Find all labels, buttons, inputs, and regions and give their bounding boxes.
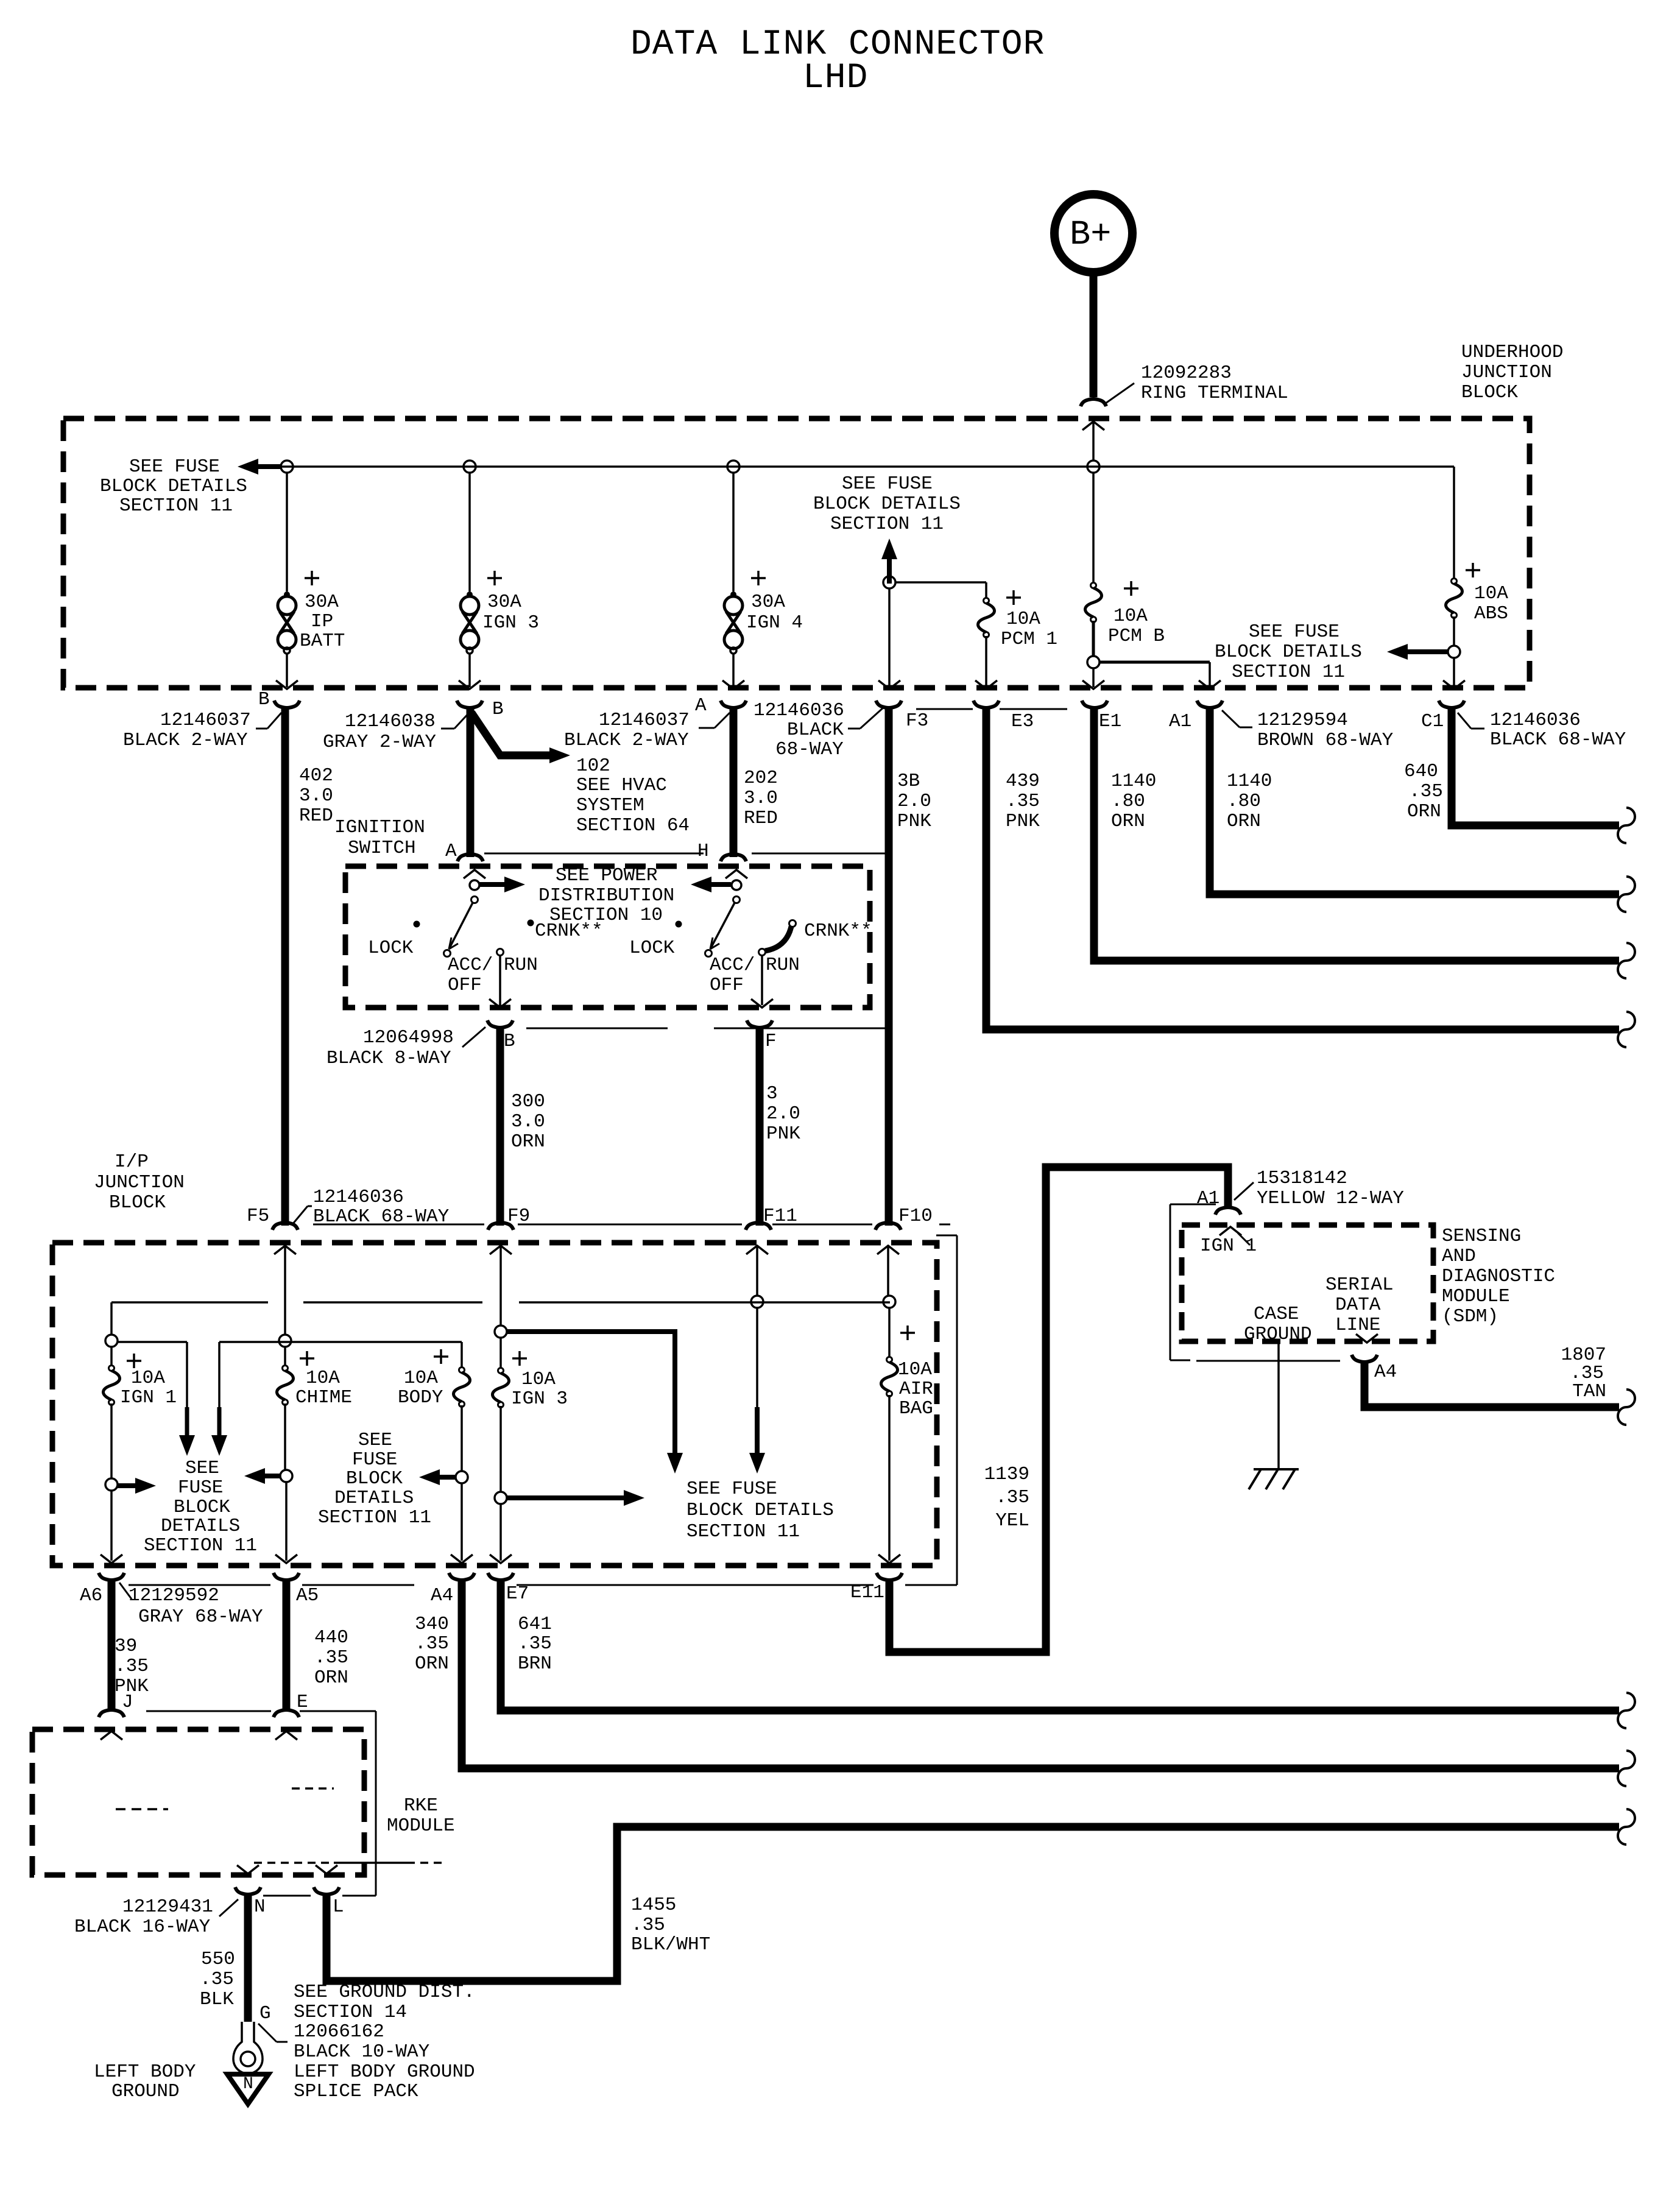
label + for fuse at x=471 <box>305 571 319 585</box>
svg-text:30A: 30A <box>305 591 339 613</box>
squiggle 439 <box>1618 1012 1635 1047</box>
wire PCMB junction down <box>1092 668 1095 687</box>
svg-text:PNK: PNK <box>1006 811 1040 832</box>
label CRNK** switch1 <box>535 920 603 942</box>
arrow chevron ign out B <box>489 999 511 1008</box>
ground triangle N <box>227 2074 269 2104</box>
label pin N RKE <box>254 1896 266 1918</box>
svg-text:BLOCK DETAILS: BLOCK DETAILS <box>686 1500 834 1521</box>
wire IP bus2203 b <box>219 1341 462 1343</box>
wire F10 down <box>887 1247 889 1296</box>
svg-text:SENSING: SENSING <box>1442 1226 1521 1247</box>
node junction IGN1 bottom <box>105 1478 118 1491</box>
svg-text:.35: .35 <box>518 1633 552 1654</box>
svg-text:TAN: TAN <box>1572 1381 1606 1402</box>
arrow fuse details left 2 <box>419 1469 456 1485</box>
svg-text:(SDM): (SDM) <box>1442 1306 1498 1327</box>
svg-text:DISTRIBUTION: DISTRIBUTION <box>538 885 674 906</box>
node junction IGN3 top <box>495 1326 507 1338</box>
label SEE POWER DISTRIBUTION SECTION 10 <box>538 865 674 926</box>
arrow branch 102 to HVAC <box>471 713 570 763</box>
label 300 3.0 ORN <box>511 1091 545 1153</box>
label pin A1 <box>1169 711 1191 732</box>
arrow chevron out E3col <box>878 680 900 689</box>
svg-text:402: 402 <box>299 765 333 786</box>
label UNDERHOOD JUNCTION BLOCK <box>1461 342 1563 403</box>
label 12146036 BLACK 68-WAY stacked <box>754 700 884 760</box>
line RKE bottom connector <box>263 1895 356 1897</box>
label pin E RKE <box>297 1692 308 1713</box>
svg-text:10A: 10A <box>521 1369 556 1390</box>
arrow chevron out at x=771 <box>459 680 481 689</box>
connector shell at x=1986 under UJB <box>1197 701 1223 708</box>
label pin H ign <box>697 841 709 862</box>
arrow chevron in F5 <box>274 1246 296 1254</box>
svg-text:.35: .35 <box>314 1647 348 1668</box>
svg-text:IGN 1: IGN 1 <box>1200 1235 1257 1257</box>
svg-text:DETAILS: DETAILS <box>161 1516 240 1537</box>
svg-text:BLACK 8-WAY: BLACK 8-WAY <box>326 1048 451 1069</box>
svg-text:DATA: DATA <box>1335 1294 1381 1316</box>
svg-text:.35: .35 <box>631 1915 665 1936</box>
connector shell H ign <box>721 854 746 861</box>
svg-text:SEE HVAC: SEE HVAC <box>576 775 667 796</box>
line IP top connector a <box>313 1224 484 1226</box>
wire IGN1 feed corner <box>110 1302 113 1335</box>
switch2 ACC/OFF contact <box>705 950 712 957</box>
title text DATA LINK CONNECTOR <box>630 25 1045 65</box>
switch1 LOCK contact <box>414 921 420 928</box>
svg-text:BLOCK: BLOCK <box>1461 382 1518 403</box>
arrow chevron in F10 <box>877 1246 899 1254</box>
label leader G <box>258 2024 288 2042</box>
svg-text:F: F <box>765 1031 777 1052</box>
switch1 CRNK contact <box>528 920 534 927</box>
line IP bottom connector a <box>129 1584 270 1586</box>
svg-text:SECTION 11: SECTION 11 <box>318 1507 431 1528</box>
connector shell at x=1619 under UJB <box>973 701 999 708</box>
wire 439 PNK <box>986 707 1619 1029</box>
label pin F10 <box>898 1206 933 1227</box>
svg-text:ORN: ORN <box>511 1131 545 1153</box>
svg-text:RUN: RUN <box>766 955 800 976</box>
label + AIRBAG <box>900 1326 915 1340</box>
svg-text:.35: .35 <box>1006 791 1040 812</box>
label 202 3.0 RED <box>744 768 778 829</box>
label RKE MODULE <box>387 1795 455 1837</box>
label 15318142 YELLOW 12-WAY <box>1234 1168 1404 1209</box>
svg-text:1140: 1140 <box>1111 771 1156 792</box>
svg-text:N: N <box>254 1896 266 1918</box>
svg-text:FUSE: FUSE <box>178 1477 223 1499</box>
svg-text:10A: 10A <box>404 1368 438 1389</box>
svg-text:I/P: I/P <box>115 1151 149 1173</box>
svg-text:10A: 10A <box>306 1368 340 1389</box>
svg-text:CRNK**: CRNK** <box>804 920 872 942</box>
svg-text:JUNCTION: JUNCTION <box>94 1172 185 1193</box>
wire 102 RED <box>467 707 475 857</box>
RKE internal dashes c <box>254 1862 446 1864</box>
connector shell IP bottom x=470 <box>274 1573 299 1580</box>
svg-text:C1: C1 <box>1421 711 1444 732</box>
wire IP bus2137 a <box>111 1301 268 1304</box>
node junction CHIME top <box>279 1335 291 1347</box>
connector shell at x=2383 under UJB <box>1439 701 1464 708</box>
label 1139 .35 YEL <box>984 1464 1029 1531</box>
label 1807 .35 TAN <box>1561 1344 1606 1402</box>
switch1 ACC/OFF contact <box>444 950 451 957</box>
svg-text:H: H <box>697 841 709 862</box>
arrow chevron out A4 <box>451 1555 473 1563</box>
wire F5 junction to fuse <box>284 1347 286 1366</box>
svg-text:BAG: BAG <box>899 1398 933 1419</box>
arrow fuse details right 2 <box>507 1490 644 1506</box>
label pin L RKE <box>333 1896 344 1918</box>
svg-text:439: 439 <box>1006 771 1040 792</box>
switch2 RUN contact <box>759 949 766 956</box>
wire IGN1 junction down <box>110 1491 113 1561</box>
svg-text:LHD: LHD <box>803 58 868 98</box>
arrow chevron in A1 SDM <box>1219 1227 1250 1245</box>
RKE internal dashes b <box>292 1787 334 1790</box>
node junction PCM1 <box>883 576 895 588</box>
label 3B 2.0 PNK <box>897 771 931 832</box>
connector shell B ign <box>487 1020 513 1028</box>
wire bus corner to ABS fuse <box>1453 467 1455 579</box>
label SENSING AND DIAGNOSTIC MODULE (SDM) <box>1442 1226 1555 1327</box>
svg-text:F3: F3 <box>906 710 928 732</box>
squiggle 1455 <box>1618 1809 1635 1845</box>
wire PCM1 fuse to box bottom <box>985 636 987 687</box>
arrow fuse details down 3 <box>749 1308 765 1474</box>
svg-text:IGNITION: IGNITION <box>334 817 425 838</box>
ignition switch dashed box <box>345 866 870 1008</box>
label 12129592 GRAY 68-WAY <box>119 1583 263 1628</box>
arrow switch1 to power dist <box>479 877 525 892</box>
arrow B+ entry chevron <box>1082 422 1104 430</box>
svg-text:10A: 10A <box>131 1368 165 1389</box>
label SEE FUSE BLOCK DETAILS SECTION 11 IP-mid <box>318 1430 431 1528</box>
label SERIAL DATA LINE <box>1325 1274 1394 1336</box>
label 12129594 BROWN 68-WAY <box>1222 710 1394 751</box>
svg-text:SEE: SEE <box>185 1458 219 1479</box>
svg-text:3: 3 <box>766 1083 778 1104</box>
label ACC/ OFF switch1 <box>448 955 493 996</box>
svg-text:12146036: 12146036 <box>754 700 844 721</box>
label 3 2.0 PNK <box>766 1083 800 1145</box>
label fuse value at x=1204 <box>746 591 803 634</box>
svg-text:RING TERMINAL: RING TERMINAL <box>1141 383 1288 404</box>
svg-text:BLOCK: BLOCK <box>174 1497 230 1518</box>
connector shell F11 <box>746 1223 771 1230</box>
label 12129431 BLACK 16-WAY <box>74 1896 238 1938</box>
svg-text:BODY: BODY <box>398 1387 443 1408</box>
svg-text:SEE FUSE: SEE FUSE <box>686 1478 777 1500</box>
svg-text:12146037: 12146037 <box>599 710 690 731</box>
wire IP bus2137 b <box>303 1301 482 1304</box>
switch2 run line down <box>761 956 763 1005</box>
svg-text:IP: IP <box>311 611 333 632</box>
arrow fuse details right top <box>506 1332 683 1474</box>
connector shell IP bottom x=822 <box>488 1573 514 1580</box>
label LEFT BODY GROUND <box>94 2061 196 2102</box>
svg-text:BLACK 16-WAY: BLACK 16-WAY <box>74 1916 211 1938</box>
node junction PCMB out <box>1087 656 1099 668</box>
svg-text:LOCK: LOCK <box>629 937 675 959</box>
wire BODY to junction <box>461 1405 463 1472</box>
arrow fuse details left 1 <box>244 1468 280 1484</box>
wire AIRBAG down <box>888 1395 891 1561</box>
label pin A1 SDM <box>1197 1188 1219 1209</box>
label pin E3 <box>1011 711 1034 732</box>
switch2 CRNK contact <box>789 920 796 927</box>
svg-text:BLACK 10-WAY: BLACK 10-WAY <box>294 2041 430 2063</box>
svg-text:SYSTEM: SYSTEM <box>576 795 644 816</box>
wire PCMB junction right <box>1099 662 1210 687</box>
RKE module dashed box <box>32 1729 364 1875</box>
connector shell F9 <box>488 1223 514 1230</box>
RKE internal dashes a <box>116 1808 168 1810</box>
svg-text:FUSE: FUSE <box>352 1449 397 1470</box>
wire 1140 ORN E1 <box>1094 707 1619 961</box>
wire ABS junction down <box>1453 658 1455 687</box>
label + ABS <box>1466 563 1480 577</box>
svg-text:YELLOW 12-WAY: YELLOW 12-WAY <box>1257 1188 1404 1209</box>
arrow see fuse block details left <box>238 459 281 475</box>
squiggle 641 <box>1618 1693 1635 1728</box>
svg-text:12129431: 12129431 <box>122 1896 213 1918</box>
label 640 .35 ORN <box>1404 761 1443 822</box>
wire IP bus2203 a <box>117 1341 187 1343</box>
node junction E11 top <box>883 1296 895 1308</box>
svg-text:ACC/: ACC/ <box>448 955 493 976</box>
svg-text:12129592: 12129592 <box>129 1585 219 1606</box>
wire 550 BLK <box>244 1896 252 2022</box>
label LOCK switch1 <box>368 937 414 959</box>
svg-text:2.0: 2.0 <box>766 1103 800 1124</box>
svg-text:A: A <box>695 695 707 716</box>
svg-text:300: 300 <box>511 1091 545 1112</box>
wire 1139 YEL <box>889 1167 1228 1652</box>
connector shell N RKE <box>235 1887 261 1894</box>
node junction CHIME bottom <box>280 1470 292 1482</box>
svg-text:3.0: 3.0 <box>511 1111 545 1132</box>
svg-text:.80: .80 <box>1111 791 1145 812</box>
svg-text:550: 550 <box>201 1949 235 1970</box>
svg-text:640: 640 <box>1404 761 1438 782</box>
arrow chevron out at x=471 <box>276 680 298 689</box>
arrow chevron out serial data <box>1356 1334 1378 1343</box>
arrow chevron out at x=1204 <box>722 680 744 689</box>
svg-text:AND: AND <box>1442 1246 1476 1267</box>
wire F9 down <box>499 1247 502 1326</box>
node junction IGN1 <box>105 1335 118 1347</box>
connector shell at x=471 under UJB <box>274 701 300 708</box>
svg-text:12146037: 12146037 <box>160 710 251 731</box>
svg-text:BRN: BRN <box>518 1653 552 1675</box>
label 10A IGN 1 <box>120 1368 177 1408</box>
label 10A PCM B <box>1108 605 1165 647</box>
svg-text:BLOCK DETAILS: BLOCK DETAILS <box>100 476 247 497</box>
line RKE bracket <box>356 1711 376 1896</box>
svg-text:.35: .35 <box>1409 781 1443 802</box>
label IGNITION SWITCH <box>334 817 425 859</box>
svg-text:39: 39 <box>115 1636 137 1657</box>
svg-text:IGN 1: IGN 1 <box>120 1387 177 1408</box>
label 550 .35 BLK <box>200 1949 235 2010</box>
wire fuse to box bottom at x=771 <box>468 653 471 687</box>
connector shell at x=1459 under UJB <box>876 701 902 708</box>
wire IGN3 to junction <box>499 1406 502 1492</box>
svg-text:10A: 10A <box>1474 583 1508 604</box>
label 12146037 BLACK 2-WAY #1 <box>123 710 281 751</box>
switch2 pivot circle <box>732 880 741 890</box>
wire ABS fuse to junction <box>1453 616 1455 646</box>
wire CHIME to junction <box>284 1403 286 1470</box>
label 641 .35 BRN <box>518 1614 552 1675</box>
svg-text:ORN: ORN <box>314 1667 348 1689</box>
label CRNK** switch2 <box>804 920 872 942</box>
svg-text:CHIME: CHIME <box>295 1387 352 1408</box>
wire 1807 TAN <box>1364 1362 1619 1407</box>
node junction on bus at IGN 3 <box>464 461 476 473</box>
connector shell IP bottom x=758 <box>449 1573 475 1580</box>
svg-text:BLOCK: BLOCK <box>346 1468 403 1489</box>
arrow switch2 to power dist <box>691 877 731 892</box>
arrow chevron out A6 <box>101 1555 122 1563</box>
wire 300 ORN <box>496 1027 504 1226</box>
svg-text:10A: 10A <box>1114 605 1148 627</box>
svg-text:UNDERHOOD: UNDERHOOD <box>1461 342 1563 363</box>
wire IGN3 junction down <box>499 1504 502 1561</box>
svg-text:1455: 1455 <box>631 1894 676 1916</box>
label pin C1 <box>1421 711 1444 732</box>
svg-text:J: J <box>122 1692 133 1713</box>
svg-text:F10: F10 <box>898 1206 933 1227</box>
svg-text:30A: 30A <box>751 591 785 613</box>
svg-text:GRAY 2-WAY: GRAY 2-WAY <box>323 732 436 753</box>
connector shell E RKE <box>274 1710 299 1717</box>
label SEE FUSE BLOCK DETAILS SECTION 11 mid <box>813 473 961 535</box>
arrow chevron out F3col <box>975 680 997 689</box>
line connector row F3-E3 a <box>916 708 973 710</box>
label RUN switch1 <box>504 955 538 976</box>
svg-text:SECTION 11: SECTION 11 <box>686 1521 800 1542</box>
wire bus to fuse at x=771 <box>468 473 471 591</box>
line SDM bracket <box>1170 1204 1190 1360</box>
I/P junction block dashed box <box>52 1243 937 1566</box>
svg-text:.80: .80 <box>1227 791 1261 812</box>
node junction on bus at IGN 4 <box>727 461 739 473</box>
wire 202 RED <box>730 707 738 857</box>
svg-text:GROUND: GROUND <box>111 2081 180 2102</box>
connector shell A ign <box>457 854 483 861</box>
wire IGN3 junction to fuse <box>499 1338 502 1368</box>
ground chassis symbol <box>1249 1469 1299 1489</box>
svg-text:A4: A4 <box>1374 1361 1397 1383</box>
label pin A4 SDM <box>1374 1361 1397 1383</box>
svg-text:B: B <box>504 1031 515 1052</box>
svg-text:N: N <box>243 2075 253 2094</box>
svg-text:ABS: ABS <box>1474 603 1508 624</box>
svg-text:YEL: YEL <box>995 1510 1029 1531</box>
label + for fuse at x=771 <box>487 571 502 585</box>
label fuse value at x=471 <box>300 591 345 652</box>
svg-text:.35: .35 <box>115 1656 149 1677</box>
svg-text:AIR: AIR <box>899 1379 933 1400</box>
svg-text:BLACK: BLACK <box>787 719 844 741</box>
svg-text:B+: B+ <box>1070 216 1111 255</box>
svg-text:1140: 1140 <box>1227 771 1272 792</box>
title text LHD <box>803 58 868 98</box>
label fuse value at x=771 <box>482 591 539 634</box>
svg-text:MODULE: MODULE <box>1442 1286 1510 1307</box>
wire PCMB fuse to junction <box>1092 621 1095 657</box>
svg-text:68-WAY: 68-WAY <box>775 739 844 760</box>
svg-text:SECTION 11: SECTION 11 <box>144 1535 257 1556</box>
label pin E7 <box>506 1583 529 1605</box>
line RKE top connector <box>146 1710 364 1712</box>
squiggle 1807 <box>1618 1389 1635 1425</box>
wire B+ entry to bus <box>1092 423 1095 461</box>
svg-text:PCM B: PCM B <box>1108 626 1165 647</box>
svg-text:12146036: 12146036 <box>1490 710 1581 731</box>
fuse 10A IGN 1 <box>104 1366 120 1405</box>
squiggle 340 <box>1618 1751 1635 1786</box>
wire E11 junction to fuse <box>888 1308 891 1357</box>
arrow see fuse details left ABS <box>1387 644 1448 660</box>
SDM dashed box <box>1182 1225 1433 1341</box>
label pin B mid <box>492 699 504 720</box>
svg-text:ACC/: ACC/ <box>710 955 755 976</box>
label 39 .35 PNK <box>115 1636 149 1697</box>
squiggle 1140 E1 <box>1618 943 1635 978</box>
switch2 chevron <box>725 870 747 878</box>
line SDM bottom connector <box>1196 1360 1340 1362</box>
switch2 arm to ACC/OFF <box>710 903 735 949</box>
label 1140 .80 ORN E1 <box>1111 771 1156 832</box>
node junction BODY bottom <box>456 1471 468 1483</box>
svg-text:641: 641 <box>518 1614 552 1635</box>
svg-text:SEE POWER: SEE POWER <box>556 865 657 886</box>
label SEE FUSE BLOCK DETAILS SECTION 11 right <box>1215 621 1362 683</box>
svg-text:SECTION 11: SECTION 11 <box>1232 662 1345 683</box>
connector shell A4 SDM <box>1352 1355 1377 1362</box>
svg-text:SEE FUSE: SEE FUSE <box>1249 621 1339 643</box>
label 402 3.0 RED <box>299 765 333 827</box>
connector shell IP bottom x=183 <box>99 1573 124 1580</box>
svg-text:E: E <box>297 1692 308 1713</box>
label IGN 1 SDM <box>1200 1235 1257 1257</box>
label pin B ign <box>504 1031 515 1052</box>
wire IGN1 junction to fuse <box>110 1347 113 1366</box>
wire 641 BRN <box>501 1581 1619 1710</box>
svg-text:GROUND: GROUND <box>1244 1324 1312 1345</box>
svg-text:PCM 1: PCM 1 <box>1001 629 1057 650</box>
svg-text:PNK: PNK <box>766 1123 800 1145</box>
switch1 run line down <box>499 956 501 1005</box>
svg-text:LEFT BODY: LEFT BODY <box>94 2061 196 2083</box>
connector shell at x=1204 under UJB <box>721 701 746 708</box>
svg-text:LINE: LINE <box>1335 1315 1380 1336</box>
label CASE GROUND <box>1244 1304 1312 1345</box>
line IP bottom connector d <box>905 1584 937 1586</box>
arrow up to fuse details <box>881 538 897 584</box>
svg-text:SECTION 11: SECTION 11 <box>119 495 233 517</box>
label pin J RKE <box>122 1692 133 1713</box>
label 10A PCM 1 <box>1001 609 1057 650</box>
svg-text:MODULE: MODULE <box>387 1815 455 1837</box>
